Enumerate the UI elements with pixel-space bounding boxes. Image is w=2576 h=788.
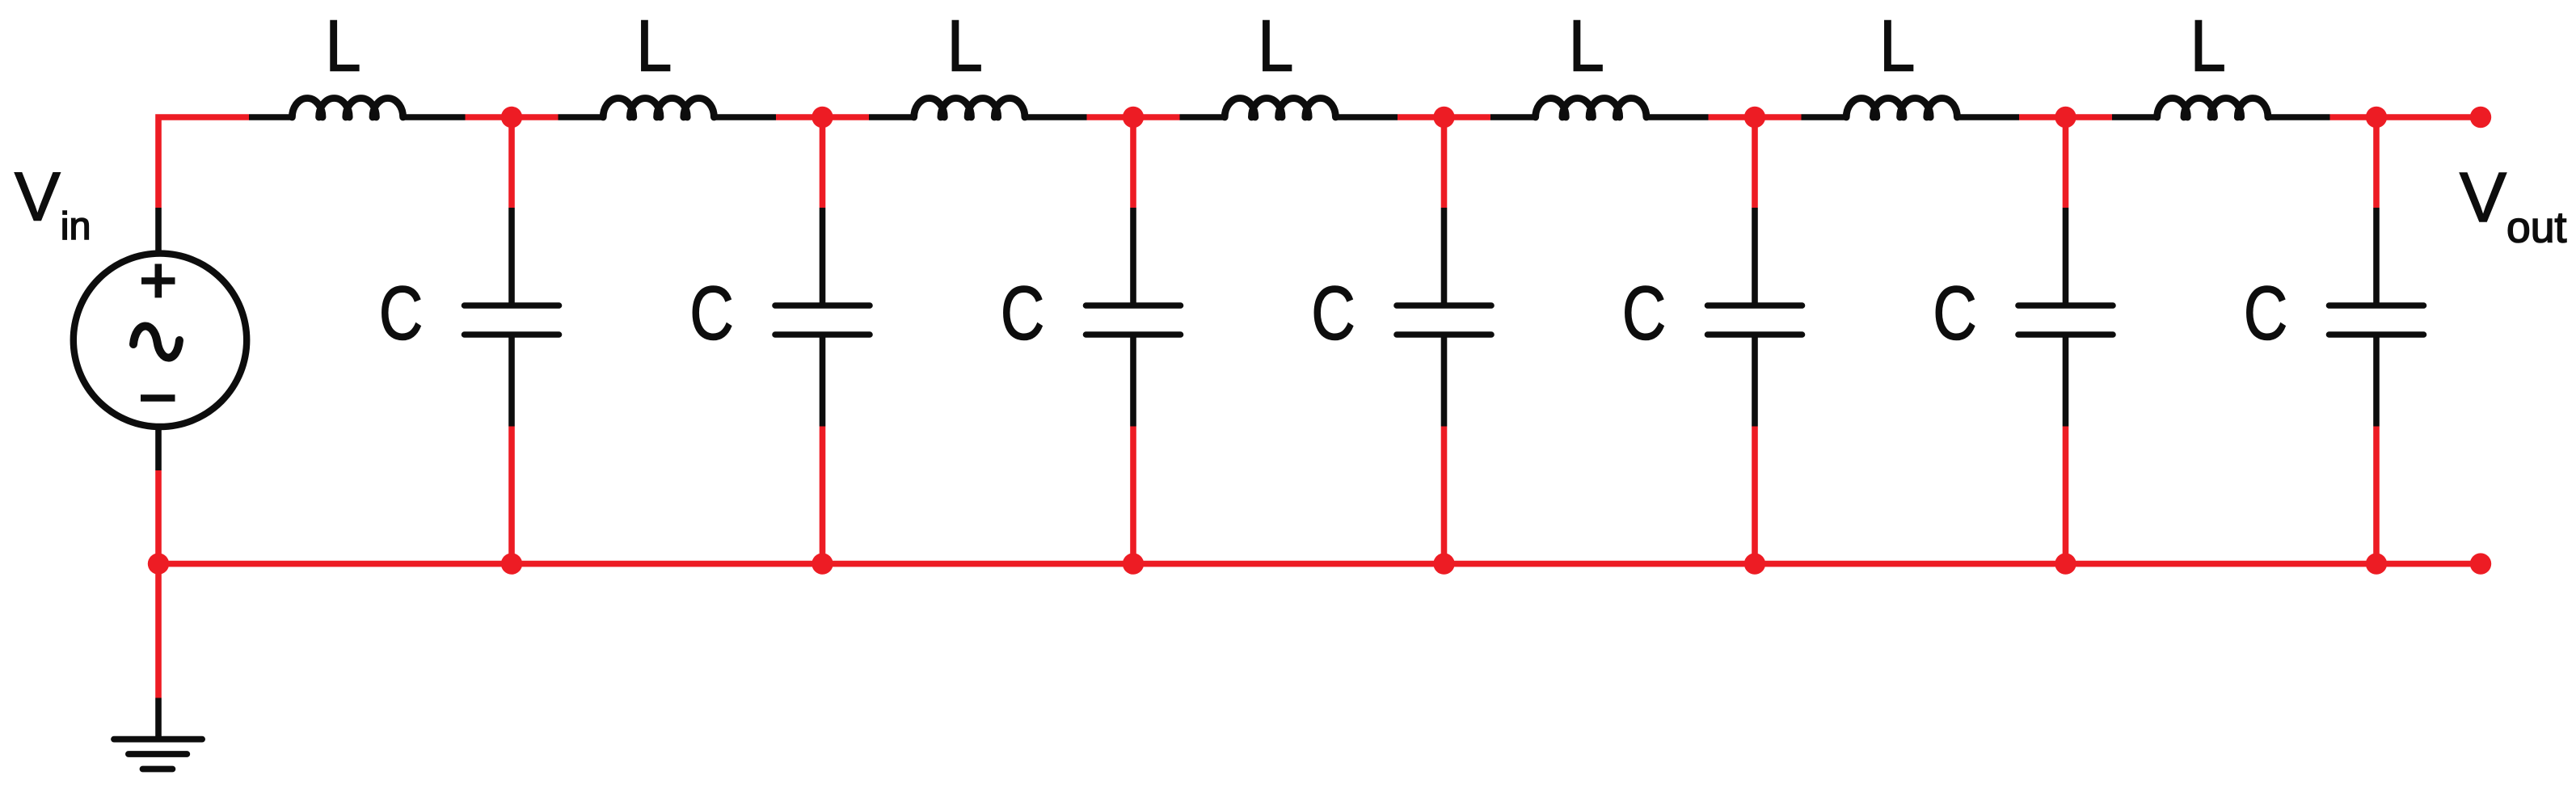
svg-text:L: L <box>1569 5 1604 86</box>
wire red C4 to ground rail <box>1441 427 1448 564</box>
wire black lead L1 left <box>249 114 292 120</box>
svg-text:C: C <box>1001 272 1044 356</box>
junction dot bottom node 2 <box>812 553 833 574</box>
wire black C3 bottom lead <box>1130 337 1136 427</box>
wire black C5 top lead <box>1752 208 1758 303</box>
svg-text:L: L <box>325 5 360 86</box>
wire black C4 bottom lead <box>1441 337 1448 427</box>
junction dot bottom node 1 <box>501 553 522 574</box>
wire black lead L4 left <box>1180 114 1225 120</box>
inductor L4 coil <box>1225 99 1335 118</box>
wire black lead L7 left <box>2112 114 2157 120</box>
wire red C2 to ground rail <box>820 427 826 564</box>
svg-text:C: C <box>689 272 733 356</box>
svg-text:L: L <box>2190 5 2226 86</box>
inductor L5 coil <box>1536 99 1646 118</box>
junction dot bottom node 4 <box>1433 553 1454 574</box>
wire black lead L4 right <box>1335 114 1398 120</box>
wire red drop from node 6 <box>2063 117 2069 208</box>
wire red C3 to ground rail <box>1130 427 1136 564</box>
wire black lead L2 right <box>714 114 776 120</box>
wire black C1 bottom lead <box>508 337 515 427</box>
wire black lead L5 left <box>1490 114 1536 120</box>
wire black C5 bottom lead <box>1752 337 1758 427</box>
wire black lead L1 right <box>403 114 466 120</box>
capacitor C4 plates <box>1397 306 1491 335</box>
capacitor C2 plates <box>775 306 870 335</box>
voltage source minus sign <box>141 394 175 402</box>
wire red top rail at node 4 <box>1398 114 1490 120</box>
svg-text:L: L <box>947 5 983 86</box>
svg-text:Vin: Vin <box>15 158 91 248</box>
wire red C6 to ground rail <box>2063 427 2069 564</box>
wire red C5 to ground rail <box>1752 427 1758 564</box>
wire black lead L6 left <box>1802 114 1847 120</box>
svg-text:Vout: Vout <box>2460 158 2567 252</box>
voltage source Vin circle <box>74 254 247 427</box>
wire red drop from node 1 <box>508 117 515 208</box>
wire black lead L7 right <box>2268 114 2330 120</box>
wire black lead source top <box>155 208 162 252</box>
svg-text:C: C <box>1933 272 1976 356</box>
wire black C4 top lead <box>1441 208 1448 303</box>
wire red C1 to ground rail <box>508 427 515 564</box>
wire red top rail at node 7 <box>2330 114 2481 120</box>
wire red top rail at node 6 <box>2019 114 2112 120</box>
wire black C2 top lead <box>820 208 826 303</box>
inductor L7 coil <box>2157 98 2268 117</box>
wire red top rail at node 1 <box>466 114 559 120</box>
wire black lead source bottom <box>155 428 162 470</box>
wire red top rail at node 2 <box>776 114 869 120</box>
junction dot top node 6 <box>2055 107 2076 128</box>
voltage source sine wave <box>133 326 179 357</box>
junction dot bottom node 6 <box>2055 553 2076 574</box>
junction dot top node 3 <box>1123 107 1144 128</box>
wire top-left red corner from Vin node <box>158 117 249 208</box>
inductor L1 coil <box>292 98 403 117</box>
inductor L6 coil <box>1846 98 1957 117</box>
junction dot bottom-left ground node <box>148 553 169 574</box>
junction dot top node 1 <box>501 107 522 128</box>
junction dot top node 4 <box>1433 107 1454 128</box>
wire black C3 top lead <box>1130 208 1136 303</box>
junction dot top node 7 <box>2366 107 2387 128</box>
wire black C7 bottom lead <box>2373 337 2380 427</box>
wire black lead L6 right <box>1957 114 2019 120</box>
capacitor C1 plates <box>465 306 559 335</box>
wire black C6 bottom lead <box>2063 337 2069 427</box>
inductor L2 coil <box>603 99 714 118</box>
junction dot top node 2 <box>812 107 833 128</box>
wire black lead L2 left <box>559 114 604 120</box>
wire black lead L3 left <box>869 114 914 120</box>
terminal dot Vout top <box>2470 107 2491 128</box>
capacitor C7 plates <box>2329 306 2424 335</box>
terminal dot Vout bottom <box>2470 553 2491 574</box>
wire red drop from node 5 <box>1752 117 1758 208</box>
wire black C6 top lead <box>2063 208 2069 303</box>
junction dot top node 5 <box>1744 107 1765 128</box>
wire red drop from node 4 <box>1441 117 1448 208</box>
wire black ground stub <box>155 698 162 739</box>
inductor L3 coil <box>914 99 1025 118</box>
capacitor C3 plates <box>1086 306 1181 335</box>
capacitor C6 plates <box>2018 306 2113 335</box>
svg-text:C: C <box>2244 272 2287 356</box>
wire black C2 bottom lead <box>820 337 826 427</box>
wire red C7 to ground rail <box>2373 427 2380 564</box>
svg-text:L: L <box>1879 5 1915 86</box>
svg-text:L: L <box>636 5 672 86</box>
junction dot bottom node 3 <box>1123 553 1144 574</box>
svg-text:C: C <box>1622 272 1666 356</box>
wire red ground stub <box>155 564 162 698</box>
wire black lead L3 right <box>1025 114 1087 120</box>
svg-text:C: C <box>1311 272 1355 356</box>
wire red drop from node 2 <box>820 117 826 208</box>
voltage source plus sign <box>141 264 175 298</box>
wire black C1 top lead <box>508 208 515 303</box>
svg-text:C: C <box>379 272 423 356</box>
junction dot bottom node 5 <box>1744 553 1765 574</box>
wire red bottom ground rail <box>158 561 2481 567</box>
wire red top rail at node 5 <box>1709 114 1802 120</box>
wire red source to ground rail <box>155 470 162 564</box>
svg-text:L: L <box>1258 5 1293 86</box>
junction dot bottom node 7 <box>2366 553 2387 574</box>
capacitor C5 plates <box>1708 306 1802 335</box>
wire red drop from node 7 <box>2373 117 2380 208</box>
wire black lead L5 right <box>1646 114 1709 120</box>
ground symbol <box>114 740 202 769</box>
wire black C7 top lead <box>2373 208 2380 303</box>
wire red drop from node 3 <box>1130 117 1136 208</box>
wire red top rail at node 3 <box>1087 114 1180 120</box>
